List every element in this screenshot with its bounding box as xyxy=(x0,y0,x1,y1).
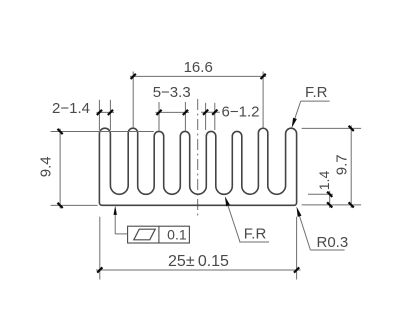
svg-text:0.1: 0.1 xyxy=(167,227,187,243)
svg-text:9.7: 9.7 xyxy=(334,154,351,175)
svg-text:16.6: 16.6 xyxy=(184,59,213,76)
dimension 6-1.2 xyxy=(201,103,259,130)
svg-text:2−1.4: 2−1.4 xyxy=(52,100,90,117)
label F.R (bottom) xyxy=(225,196,269,242)
dimension 9.4 (left) xyxy=(37,129,154,209)
label R0.3 (bottom right) xyxy=(297,207,349,251)
centerline xyxy=(197,99,199,219)
dimension 5-3.3 xyxy=(153,84,191,131)
svg-text:5−3.3: 5−3.3 xyxy=(153,84,191,101)
svg-text:9.4: 9.4 xyxy=(37,156,54,177)
label F.R (top right) xyxy=(292,84,330,128)
svg-text:F.R: F.R xyxy=(244,226,267,243)
svg-text:F.R: F.R xyxy=(305,84,328,101)
dimension 9.7 (right) xyxy=(302,125,362,207)
dimension 2-1.4 xyxy=(52,100,114,130)
parallelism feature control frame xyxy=(114,206,190,243)
svg-text:25± 0.15: 25± 0.15 xyxy=(168,253,229,270)
heatsink profile outline xyxy=(99,128,296,205)
svg-text:6−1.2: 6−1.2 xyxy=(222,104,260,121)
dimension 1.4 (right) xyxy=(308,171,333,208)
svg-text:R0.3: R0.3 xyxy=(317,234,349,251)
svg-text:1.4: 1.4 xyxy=(316,171,332,191)
dimension 16.6 xyxy=(130,59,266,128)
dimension 25±0.15 (bottom) xyxy=(96,217,301,280)
